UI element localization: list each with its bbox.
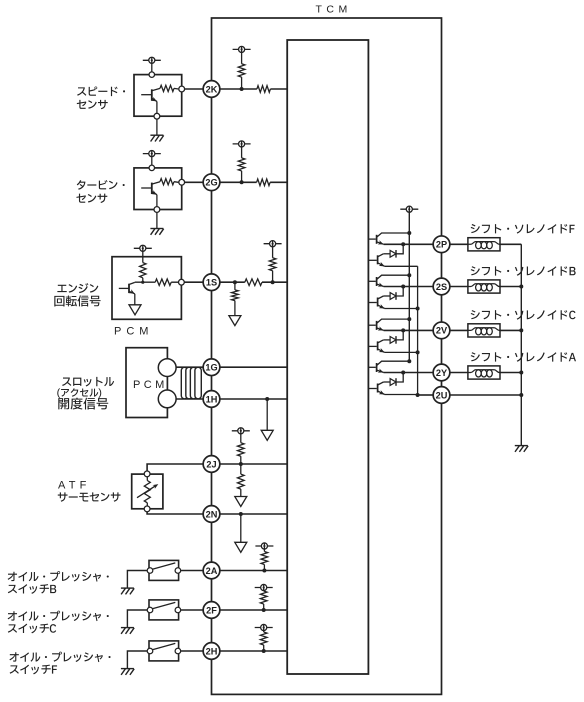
svg-text:TCM: TCM [316, 4, 352, 16]
power supply 2J [232, 428, 250, 434]
outer TCM box [212, 18, 442, 694]
transistor 2V lower [377, 341, 379, 350]
svg-text:2J: 2J [206, 459, 216, 469]
node 1H [265, 397, 269, 401]
terminal out speed sensor [179, 86, 185, 92]
pin 2U [433, 387, 450, 404]
resistor in PCM box [142, 251, 144, 262]
oil pressure switch B contacts [152, 563, 175, 570]
ground speed sensor [150, 135, 163, 141]
wire solenoid C out [500, 329, 521, 331]
ground arrow 1S [229, 316, 241, 326]
svg-text:2P: 2P [436, 240, 447, 250]
driver 2S base1 [368, 280, 375, 282]
output wire 2P [384, 243, 434, 245]
terminal bottom turbine sensor [154, 207, 160, 213]
pin 2N [203, 506, 220, 523]
output wire 2Y [384, 372, 434, 374]
oil pressure switch C box [149, 600, 179, 620]
wire 1G [176, 366, 203, 368]
power supply 2A [255, 543, 273, 549]
node output 2P [401, 242, 405, 246]
label oilF-1 [9, 652, 110, 662]
ground turbine sensor [150, 229, 163, 235]
resistor 2G series [257, 179, 271, 186]
wire 1G row [220, 366, 287, 368]
resistor 2K pullup [241, 77, 243, 89]
node output 2S [401, 285, 405, 289]
node output 2V [401, 328, 405, 332]
emitter wire 2P [385, 265, 418, 267]
label oilF-2 [10, 665, 57, 675]
node 2F [262, 608, 266, 612]
ground arrow 1H [261, 430, 273, 440]
ground solenoid common [515, 446, 528, 452]
oil pressure switch F contacts [152, 643, 175, 650]
wire pin to solenoid A [450, 372, 468, 374]
node 2H [262, 649, 266, 653]
node 1S pullup [271, 280, 275, 284]
output wire 2S [384, 286, 434, 288]
node collector 2P [407, 231, 411, 235]
label engine-2 [54, 295, 100, 306]
pin 2G [203, 174, 220, 191]
diode 2V [390, 337, 396, 344]
label speed-1 [77, 86, 125, 96]
pin 2F [203, 602, 220, 619]
wire 2N [147, 512, 203, 514]
oil pressure switch B box [149, 560, 179, 580]
ground oil pressure switch C [121, 628, 134, 634]
wire 2N row [220, 513, 287, 515]
label atf-2 [58, 492, 121, 501]
resistor 2F pullup [263, 604, 265, 610]
terminal top speed sensor [151, 63, 153, 72]
node output 2Y [401, 371, 405, 375]
svg-text:2K: 2K [206, 84, 218, 94]
power supply 1S [264, 241, 282, 247]
wire pin to solenoid F [450, 243, 468, 245]
node solenoid C [519, 328, 523, 332]
turbine sensor box [134, 168, 182, 210]
node 2G pullup [240, 180, 244, 184]
output wire 2V [384, 329, 434, 331]
label oilC-1 [8, 611, 109, 621]
wire oil pressure switch C to pin [179, 609, 204, 611]
resistor 2K series [257, 86, 271, 93]
transistor 2P lower [377, 255, 379, 264]
diode feedback wire 2P [396, 244, 403, 254]
driver 2Y base1 [368, 366, 375, 368]
PCM engine-signal box [112, 257, 181, 320]
node 2K pullup [240, 87, 244, 91]
solenoid C coil [468, 328, 501, 335]
transistor PCM [128, 284, 130, 293]
label oilC-2 [8, 624, 56, 634]
svg-text:2U: 2U [436, 390, 448, 400]
label turbine-1 [77, 180, 125, 190]
diode 2P [390, 250, 396, 257]
inner TCM block [287, 40, 368, 674]
wire 2J row [220, 463, 287, 465]
label solC [471, 310, 576, 320]
wire solenoid B out [500, 286, 521, 288]
node collector 2S [407, 273, 411, 277]
resistor speed sensor [160, 85, 174, 91]
transistor 2Y upper [376, 363, 378, 372]
svg-text:PCM: PCM [114, 326, 153, 338]
resistor 1S pulldown [234, 282, 236, 290]
label throttle-2 [57, 388, 101, 398]
ground arrow PCM [129, 305, 141, 315]
wire solenoid F out [500, 243, 521, 245]
supply rail [408, 212, 410, 361]
power supply turbine sensor [143, 151, 161, 157]
diode feedback wire 2Y [396, 373, 403, 383]
ATF sensor box [132, 474, 163, 509]
pin 2V [433, 322, 450, 339]
terminal top ATF [144, 471, 150, 477]
svg-text:2G: 2G [205, 178, 217, 188]
solenoid F box [468, 238, 500, 251]
wire pin to solenoid C [450, 329, 468, 331]
label solA [471, 352, 576, 362]
wire oil pressure switch B to pin [179, 570, 204, 572]
resistor 1S series [245, 279, 262, 286]
emitter wire 2V [385, 351, 418, 353]
transistor speed sensor [151, 89, 153, 100]
label solB [471, 266, 576, 276]
resistor 1S pullup [272, 271, 274, 283]
svg-text:ATF: ATF [58, 479, 91, 491]
svg-text:1S: 1S [206, 278, 217, 288]
driver 2V base1 [368, 324, 375, 326]
speed sensor box [134, 75, 182, 117]
oil pressure switch F box [149, 641, 179, 661]
diode 2S [390, 293, 396, 300]
wire 2A row [220, 570, 287, 572]
pin 2S [433, 278, 450, 295]
wire oil pressure switch F to ground [127, 651, 149, 668]
wire 2U to common [450, 394, 522, 396]
node collector 2V [407, 317, 411, 321]
power supply PCM [134, 245, 152, 251]
svg-text:2V: 2V [436, 326, 448, 336]
pin 1G [203, 359, 220, 376]
resistor 2J pullup [240, 456, 242, 464]
svg-text:2F: 2F [206, 605, 217, 615]
oil pressure switch C contacts [152, 602, 175, 609]
diode feedback wire 2S [396, 287, 403, 297]
resistor 2G pullup [241, 171, 243, 182]
drop wire 2N [240, 514, 242, 542]
label engine-1 [57, 283, 98, 293]
power supply speed sensor [143, 57, 161, 63]
node emitter bus 2S [416, 307, 420, 311]
resistor 2H pullup [263, 645, 265, 651]
wire 2K row [220, 88, 257, 90]
power supply 2H [255, 624, 273, 630]
emitter wire 2S [385, 308, 418, 310]
pin 2J [203, 456, 220, 473]
wire 1H [176, 398, 203, 400]
wire oil pressure switch B to ground [127, 571, 149, 588]
diode 2Y [390, 379, 396, 386]
svg-text:2H: 2H [206, 646, 218, 656]
transistor 2S lower [377, 298, 379, 307]
wire 1S row [220, 281, 245, 283]
label oilB-2 [8, 584, 56, 594]
svg-text:1H: 1H [206, 394, 218, 404]
node solenoid A [519, 371, 523, 375]
terminal out 1S [179, 279, 185, 285]
svg-text:PCM: PCM [133, 379, 168, 391]
ground arrow 2N [235, 542, 247, 552]
resistor turbine sensor [160, 179, 174, 185]
wire 2F row [220, 609, 287, 611]
transistor 2Y lower [377, 384, 379, 393]
node common 2U [519, 393, 523, 397]
label throttle-3 [58, 398, 108, 410]
thermistor [144, 481, 150, 503]
driver 2P base1 [368, 238, 375, 240]
node 1S pulldown [233, 280, 237, 284]
transistor 2P upper [376, 235, 378, 244]
power supply 2F [255, 584, 273, 590]
transistor 2V upper [376, 321, 378, 330]
terminal out turbine sensor [179, 179, 185, 185]
ground arrow 2J [235, 497, 247, 507]
node 2J [239, 462, 243, 466]
emitter wire 2Y [385, 394, 418, 396]
label turbine-2 [76, 194, 107, 203]
power supply 2G [233, 141, 251, 147]
label solF [471, 224, 575, 234]
transistor 2S upper [376, 277, 378, 286]
power supply 2K [233, 46, 251, 52]
solenoid A coil [468, 370, 501, 377]
ground oil pressure switch F [121, 669, 134, 675]
terminal top turbine sensor [151, 157, 153, 166]
wire 2G row [220, 181, 257, 183]
svg-text:2N: 2N [206, 509, 218, 519]
node emitter bus 2V [416, 350, 420, 354]
label speed-2 [77, 100, 108, 109]
pin 2A [203, 562, 220, 579]
node bus 2U [416, 393, 420, 397]
transistor turbine sensor [151, 183, 153, 194]
solenoid B coil [468, 284, 501, 291]
pin 1H [203, 391, 220, 408]
terminal circle 1H [158, 390, 176, 408]
svg-text:1G: 1G [205, 363, 217, 373]
wire pin to solenoid B [450, 286, 468, 288]
pin 2H [203, 643, 220, 660]
power supply solenoid drivers [400, 206, 418, 212]
wire 2U row [418, 394, 434, 396]
svg-text:2A: 2A [206, 566, 218, 576]
terminal bottom speed sensor [154, 113, 160, 119]
svg-text:2S: 2S [436, 282, 447, 292]
pickup coil [181, 367, 201, 399]
wire solenoid A out [500, 372, 521, 374]
pin 2K [203, 81, 220, 98]
pin 2Y [433, 364, 450, 381]
pin 2P [433, 236, 450, 253]
wire 1H row [220, 398, 287, 400]
diode feedback wire 2V [396, 330, 403, 340]
label oilB-1 [8, 571, 109, 581]
solenoid B box [468, 280, 500, 293]
terminal bottom ATF [144, 506, 150, 512]
series resistor 1S [155, 279, 171, 285]
resistor 2A pullup [263, 565, 265, 571]
wire 2H row [220, 650, 287, 652]
label throttle-1 [62, 377, 114, 387]
ground oil pressure switch B [121, 588, 134, 594]
pin 1S [203, 274, 220, 291]
solenoid F coil [468, 242, 501, 249]
wire oil pressure switch F to pin [179, 650, 204, 652]
node 2A [262, 569, 266, 573]
resistor 2J pulldown [240, 464, 242, 474]
wire oil pressure switch C to ground [127, 610, 149, 627]
node 2N [239, 512, 243, 516]
solenoid common wire [520, 244, 522, 445]
terminal circle 1G [158, 359, 176, 377]
node collector 2Y [407, 359, 411, 363]
PCM throttle box [126, 348, 167, 418]
node solenoid B [519, 285, 523, 289]
drop wire 1H [266, 399, 268, 430]
solenoid A box [468, 366, 500, 379]
emitter bus [417, 266, 419, 395]
solenoid C box [468, 324, 500, 337]
wire 2J [147, 464, 203, 471]
svg-text:2Y: 2Y [436, 368, 447, 378]
